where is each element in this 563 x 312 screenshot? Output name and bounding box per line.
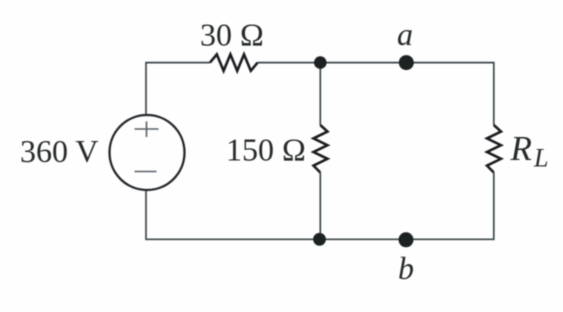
svg-text:360 V: 360 V — [20, 133, 99, 169]
node a label — [397, 16, 413, 52]
wire right vertical top: top right corner to RL — [493, 62, 495, 125]
label RL — [510, 129, 549, 173]
resistor 30ohm (horizontal zigzag) — [210, 54, 258, 70]
wire top middle: 30ohm resistor to node a and right corner — [258, 62, 494, 64]
svg-text:R: R — [510, 129, 532, 168]
label 30 ohm — [200, 16, 264, 52]
wire bottom: full bottom rail — [146, 238, 494, 240]
svg-text:150 Ω: 150 Ω — [226, 132, 306, 168]
node a terminal dot — [399, 55, 414, 70]
voltage source V1 (circle) — [110, 115, 185, 190]
label 150 ohm — [226, 132, 306, 168]
svg-text:30 Ω: 30 Ω — [200, 16, 264, 52]
wire top left: source top to 30ohm resistor — [146, 62, 210, 64]
node b terminal dot — [399, 232, 414, 247]
resistor 150ohm (vertical zigzag) — [314, 125, 328, 173]
junction dot bottom (150ohm branch) — [313, 233, 326, 246]
wire left vertical: top corner down to source circle top — [145, 62, 147, 115]
resistor RL (vertical zigzag) — [487, 125, 501, 173]
minus sign of source — [135, 171, 157, 173]
label 360 V — [20, 133, 99, 169]
wire right vertical bottom: RL to bottom right corner — [493, 173, 495, 241]
wire middle branch bottom: 150ohm resistor to bottom junction — [319, 173, 321, 240]
svg-text:L: L — [533, 144, 548, 173]
svg-text:b: b — [398, 250, 414, 286]
svg-text:a: a — [397, 16, 413, 52]
plus sign of source — [135, 122, 159, 138]
wire middle branch top: junction to 150ohm resistor — [319, 63, 321, 125]
node b label — [398, 250, 414, 286]
wire left vertical: source circle bottom to bottom corner — [145, 190, 147, 240]
junction dot top (150ohm branch) — [314, 56, 327, 69]
